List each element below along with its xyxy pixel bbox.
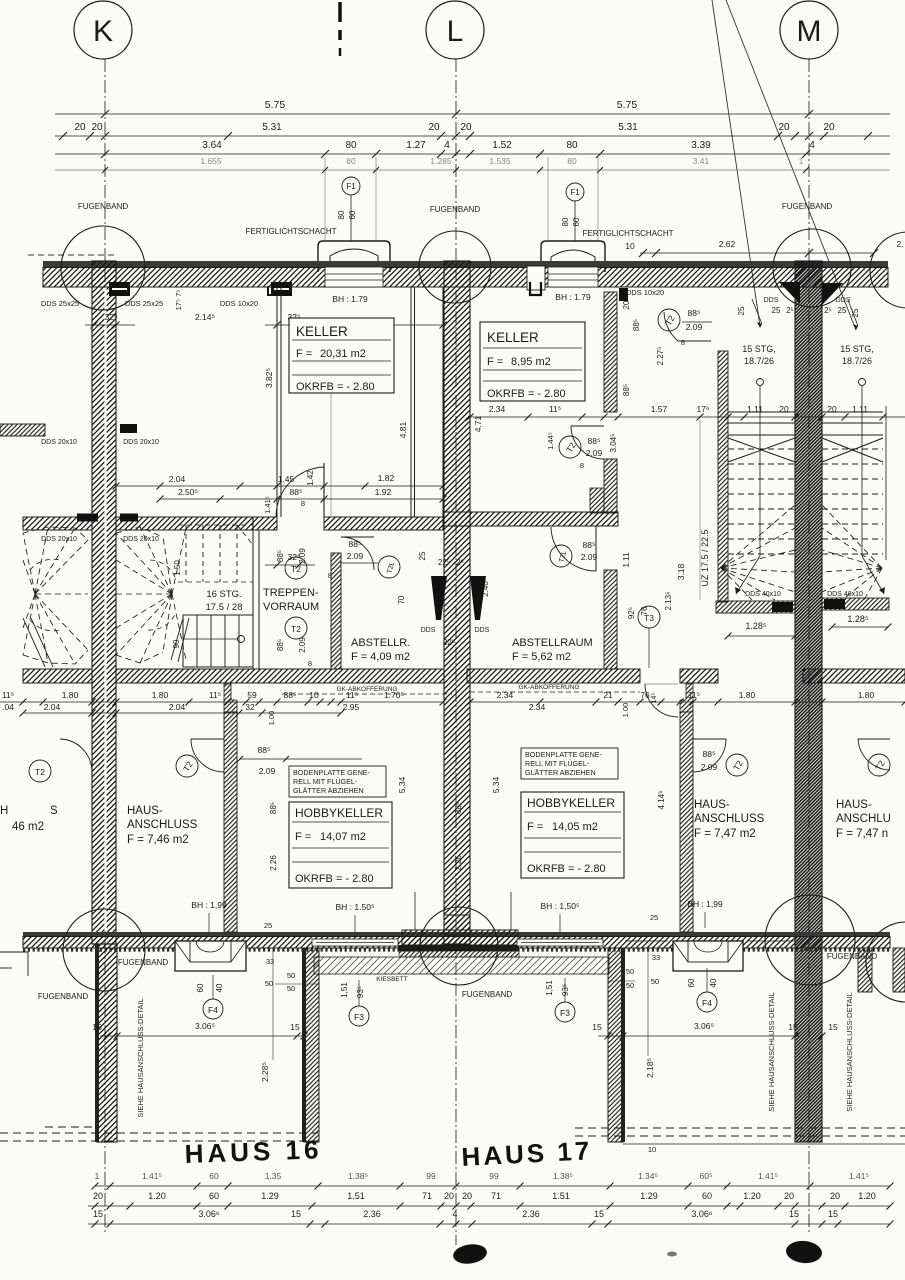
wall keller-right partition lower [604,459,617,513]
svg-text:FERTIGLICHTSCHACHT: FERTIGLICHTSCHACHT [246,227,337,236]
svg-text:1.20: 1.20 [858,1191,876,1201]
svg-text:32: 32 [245,702,255,712]
svg-text:25: 25 [851,308,860,317]
svg-text:15: 15 [789,1209,799,1219]
svg-text:11⁵: 11⁵ [209,690,221,700]
light shaft left [318,241,390,272]
svg-text:14⁵: 14⁵ [651,693,658,704]
svg-text:2.18⁵: 2.18⁵ [645,1058,655,1078]
svg-text:88⁵: 88⁵ [622,384,631,396]
T3 circle [638,606,660,628]
wall below right1 [608,948,623,1142]
svg-text:99: 99 [489,1171,499,1181]
stair solid wedge neighbour [23,618,45,667]
svg-text:20: 20 [830,1191,840,1201]
svg-text:88⁵: 88⁵ [269,802,278,814]
svg-text:25: 25 [650,913,658,922]
svg-text:80: 80 [567,156,577,166]
svg-text:2.27⁵: 2.27⁵ [656,347,665,366]
svg-text:10: 10 [648,1145,656,1154]
svg-text:40: 40 [215,983,224,992]
svg-text:FERTIGLICHTSCHACHT: FERTIGLICHTSCHACHT [583,229,674,238]
sill left of L foot [312,939,398,946]
dim row stairs 1.11 20 [859,416,861,418]
sill lines right house mid [625,940,668,942]
svg-text:60: 60 [196,983,205,992]
dim row 1.92 [160,498,443,500]
svg-text:2⁵: 2⁵ [786,306,794,315]
T2 circle far-right [868,754,890,776]
svg-text:2.36: 2.36 [522,1209,540,1219]
svg-text:15 STG,: 15 STG, [742,344,776,354]
svg-text:18.7/26: 18.7/26 [842,356,872,366]
T2L circle abstellr [378,556,400,578]
svg-text:2.36: 2.36 [363,1209,381,1219]
svg-text:20: 20 [91,122,103,133]
svg-text:15: 15 [291,1209,301,1219]
svg-text:3.06⁶: 3.06⁶ [198,1209,220,1219]
svg-text:2.28⁵: 2.28⁵ [260,1062,270,1082]
svg-text:1: 1 [95,1171,100,1181]
svg-text:25: 25 [838,306,847,315]
svg-text:1.41⁵: 1.41⁵ [849,1171,869,1181]
svg-text:2.14⁵: 2.14⁵ [195,312,215,322]
svg-text:15 STG,: 15 STG, [840,344,874,354]
wall L foot dark strip [398,945,519,951]
light well left [175,941,246,971]
detail circle right edge bottom [866,922,905,1002]
svg-text:DDS: DDS [421,627,436,634]
svg-text:T2: T2 [291,564,301,574]
svg-text:F1: F1 [570,188,580,197]
svg-text:21: 21 [603,690,613,700]
door keller-right arc [571,426,604,459]
svg-text:88⁵: 88⁵ [588,436,601,446]
T2 circle vorraum lower [285,617,307,639]
svg-text:88⁵: 88⁵ [276,639,285,651]
svg-text:K: K [93,15,113,48]
svg-text:ANSCHLUSS: ANSCHLUSS [127,819,198,831]
svg-text:2.62: 2.62 [719,239,736,249]
dim 3.06 row left [100,1035,304,1037]
svg-text:4.81: 4.81 [398,421,408,438]
svg-text:22⁵: 22⁵ [443,638,455,647]
DDS block at corridor [619,288,628,301]
svg-text:T3: T3 [644,613,654,623]
svg-text:2.95: 2.95 [343,702,360,712]
sill right of L foot [517,939,603,946]
svg-text:32⁵: 32⁵ [105,312,118,322]
svg-text:50: 50 [626,981,634,990]
svg-text:F1: F1 [346,182,356,191]
neighbour far-left door arc [60,739,92,772]
room box KELLER right [480,322,585,401]
wall top exterior hatch [43,268,888,288]
grid axis K circle [74,1,132,59]
svg-text:2.09: 2.09 [298,548,307,564]
svg-text:1,51: 1,51 [340,982,349,998]
mid dim row upper [0,701,443,703]
svg-text:ANSCHLU: ANSCHLU [836,813,891,825]
svg-text:93⁵: 93⁵ [356,986,365,998]
svg-text:3.18: 3.18 [676,563,686,580]
extension lines shaft right [547,157,549,240]
detail circle K bottom [63,909,145,991]
svg-text:88⁵: 88⁵ [583,540,596,550]
wall bottom exterior [23,932,890,937]
box BODENPLATTE left [289,766,386,797]
svg-text:2.04: 2.04 [44,702,61,712]
door far-right arc [858,739,890,770]
svg-text:15: 15 [828,1022,838,1032]
svg-text:KELLER: KELLER [487,330,539,345]
svg-text:20: 20 [778,122,790,133]
dim row 1.45 1.82 [116,485,443,487]
mid dim row lower [23,712,341,714]
svg-text:1.80: 1.80 [858,690,875,700]
svg-text:FUGENBAND: FUGENBAND [38,992,88,1001]
svg-text:FUGENBAND: FUGENBAND [462,990,512,999]
winder fan haus16 side [116,533,172,594]
svg-text:T2: T2 [291,624,301,634]
svg-text:.04: .04 [2,702,14,712]
stair break lines right flight [822,438,883,462]
svg-text:GLÄTTER ABZIEHEN: GLÄTTER ABZIEHEN [525,768,596,777]
svg-text:17⁵ 7⁵: 17⁵ 7⁵ [174,290,183,311]
svg-text:F3: F3 [560,1008,570,1018]
svg-text:14,05 m2: 14,05 m2 [552,821,598,833]
door T2L right arc [551,527,596,571]
svg-text:60: 60 [209,1171,219,1181]
svg-text:3.39: 3.39 [691,140,711,151]
svg-text:92⁵: 92⁵ [627,607,636,619]
svg-text:10: 10 [625,241,635,251]
svg-text:F = 7,47 m2: F = 7,47 m2 [694,828,756,840]
extension lines shaft left [324,157,326,240]
T2 circle hausanschluss-right [726,754,748,776]
svg-text:60⁵: 60⁵ [700,1171,713,1181]
svg-text:88⁵: 88⁵ [276,550,285,562]
svg-text:FUGENBAND: FUGENBAND [430,205,480,214]
svg-text:BH : 1.79: BH : 1.79 [555,292,591,302]
svg-text:15: 15 [788,1022,798,1032]
svg-text:50: 50 [626,967,634,976]
niche U at partition left house [268,286,276,295]
F3 right mark [555,1002,575,1022]
svg-text:2.09: 2.09 [701,762,718,772]
F1 mark right [566,183,584,201]
stair left wall right house [718,351,728,602]
box HOBBYKELLER right [521,792,624,878]
svg-text:1.51: 1.51 [552,1191,570,1201]
door hausanschluss-left [191,738,224,740]
T2 circle corridor [658,309,680,331]
svg-text:F =: F = [295,831,311,843]
svg-text:5.75: 5.75 [265,99,286,111]
svg-text:H: H [0,805,8,817]
svg-text:2.: 2. [896,239,903,249]
T2 circle far-left [29,760,51,782]
svg-text:5.34: 5.34 [397,776,407,793]
svg-text:DDS 10x20: DDS 10x20 [220,299,258,308]
svg-text:71: 71 [422,1191,432,1201]
svg-text:TREPPEN-: TREPPEN- [263,587,319,599]
svg-text:20: 20 [462,1191,472,1201]
svg-text:33: 33 [652,953,660,962]
svg-text:BH : 1,50⁵: BH : 1,50⁵ [541,901,580,911]
svg-text:20: 20 [460,122,472,133]
dds trapezoid left of L [431,576,447,620]
svg-text:VORRAUM: VORRAUM [263,601,319,613]
svg-text:50: 50 [265,979,273,988]
svg-text:80: 80 [561,217,570,226]
svg-text:HAUS-: HAUS- [694,799,730,811]
svg-text:BH : 1.50⁵: BH : 1.50⁵ [336,902,375,912]
svg-text:1.52: 1.52 [492,140,512,151]
window gap left shaft [325,267,383,287]
wall L foot stem [444,915,470,935]
svg-text:15: 15 [828,1209,838,1219]
svg-text:1.80: 1.80 [739,690,756,700]
svg-text:88⁵: 88⁵ [284,690,297,700]
svg-text:20: 20 [823,122,835,133]
svg-text:40: 40 [709,978,718,987]
svg-text:8: 8 [681,338,685,347]
svg-text:2⁵: 2⁵ [824,306,832,315]
svg-text:88⁵: 88⁵ [703,749,716,759]
svg-text:DDS 20x10: DDS 20x10 [123,439,159,446]
stair winder fan left flight [721,505,795,568]
svg-text:2.04: 2.04 [169,702,186,712]
svg-text:FUGENBAND: FUGENBAND [782,202,832,211]
winder fan neighbour left [23,533,35,594]
svg-text:RELL MIT FLÜGEL-: RELL MIT FLÜGEL- [293,777,358,786]
svg-text:20: 20 [444,1191,454,1201]
svg-text:ABSTELLR.: ABSTELLR. [351,637,410,649]
svg-text:GK-ABKOFFERUNG: GK-ABKOFFERUNG [518,684,579,691]
svg-text:88⁵: 88⁵ [290,487,303,497]
wall hausanschluss-left partition [224,712,237,932]
stair treads right house right flight [822,411,883,413]
svg-text:20: 20 [74,122,86,133]
svg-text:20: 20 [622,300,631,309]
top dim row 5.31 [55,135,890,137]
box HOBBYKELLER left [289,802,392,888]
svg-text:1.82: 1.82 [378,473,395,483]
stair guide line right flight [859,379,866,386]
beam under stairs left [716,601,795,613]
svg-text:2.09: 2.09 [686,322,703,332]
svg-text:ANSCHLUSS: ANSCHLUSS [694,813,765,825]
stair treads right house left flight [728,411,795,413]
svg-text:F3: F3 [354,1012,364,1022]
svg-text:F =: F = [296,348,312,360]
ink blob left [452,1242,488,1266]
door T2L left arc [341,537,374,570]
right edge stub b [893,948,905,992]
F3 left mark [349,1006,369,1026]
svg-text:HOBBYKELLER: HOBBYKELLER [295,806,383,820]
svg-text:UZ 17.5 / 22.5: UZ 17.5 / 22.5 [700,529,710,586]
svg-text:11⁵: 11⁵ [2,690,14,700]
svg-text:22⁵: 22⁵ [438,558,450,567]
svg-text:F =: F = [527,821,543,833]
svg-text:OKRFB = - 2.80: OKRFB = - 2.80 [296,381,375,393]
svg-text:99: 99 [426,1171,436,1181]
svg-text:2.04: 2.04 [169,474,186,484]
svg-text:8: 8 [301,499,305,508]
svg-text:DDS 20x10: DDS 20x10 [41,536,77,543]
fugenband dotted strip under bottom wall [23,948,890,951]
svg-text:76: 76 [640,690,650,700]
F1 mark left [342,177,360,195]
dashed lines above haus text left [0,1132,318,1134]
svg-text:1.655: 1.655 [200,156,222,166]
detail circle K top [61,226,145,310]
svg-text:8: 8 [328,571,332,580]
svg-text:4: 4 [452,1209,457,1219]
svg-text:15: 15 [594,1209,604,1219]
svg-text:3.82⁵: 3.82⁵ [264,368,274,388]
wall party K [92,261,116,944]
svg-text:T2: T2 [35,767,45,777]
svg-text:1.11: 1.11 [622,552,631,568]
bottom dim row B [88,1205,890,1207]
svg-text:KELLER: KELLER [296,324,348,339]
window niche small left [527,266,545,290]
svg-text:25: 25 [418,551,427,560]
wall abstellraum-right partition [604,570,617,669]
stair upper dashed left house [185,525,187,582]
svg-text:15: 15 [93,1209,103,1219]
shaft line right of keller-left [442,287,444,517]
right edge stub a [858,948,872,992]
svg-text:50: 50 [651,977,659,986]
svg-text:80: 80 [337,210,346,219]
svg-text:80: 80 [566,140,578,151]
stair solid wedge haus16 [171,618,183,660]
wall top exterior dark band [43,261,888,268]
svg-text:BODENPLATTE GENE-: BODENPLATTE GENE- [525,750,603,759]
window gap right shaft [548,267,598,287]
F4 right mark [697,992,717,1012]
svg-text:20: 20 [93,1191,103,1201]
dim 10 / 2.62 right [640,252,874,254]
svg-text:8: 8 [308,659,312,668]
wall mid-left horizontal band [23,517,92,530]
dim row right house y417 [470,416,905,418]
svg-text:L: L [447,15,464,48]
window jamb lines at L foot [414,892,416,930]
svg-text:60: 60 [348,210,357,219]
svg-text:3.64: 3.64 [202,140,222,151]
mid dim row right house [470,701,905,703]
DDS triangle right of M [822,283,843,305]
svg-text:60: 60 [209,1191,219,1201]
F4 left mark [203,999,223,1019]
svg-text:1.41⁵: 1.41⁵ [758,1171,778,1181]
svg-text:20: 20 [784,1191,794,1201]
svg-text:F4: F4 [208,1005,218,1015]
light well right [673,941,743,971]
svg-text:46 m2: 46 m2 [12,821,44,833]
dim extension line x700 [699,420,701,600]
svg-text:1.92: 1.92 [375,487,392,497]
svg-text:SIEHE HAUSANSCHLUSS-DETAIL: SIEHE HAUSANSCHLUSS-DETAIL [136,998,145,1117]
svg-text:1.38⁵: 1.38⁵ [348,1171,368,1181]
wall treppenvorraum right [331,553,341,669]
svg-text:20: 20 [428,122,440,133]
svg-text:1.51: 1.51 [347,1191,365,1201]
wall party L [444,261,470,944]
leader arrows at M dds [752,299,762,324]
svg-text:17.5 / 28: 17.5 / 28 [206,602,243,613]
svg-text:1.11: 1.11 [747,404,763,414]
svg-text:1.34⁵: 1.34⁵ [638,1171,658,1181]
svg-text:SIEHE HAUSANSCHLUSS-DETAIL: SIEHE HAUSANSCHLUSS-DETAIL [767,992,776,1111]
svg-text:M: M [797,15,822,48]
axis L top dash marks [338,2,342,22]
svg-text:1.285: 1.285 [430,156,452,166]
svg-text:2.50⁵: 2.50⁵ [178,487,198,497]
stair winder fan right flight [822,505,882,568]
svg-text:1.29: 1.29 [261,1191,279,1201]
svg-text:RELL MIT FLÜGEL-: RELL MIT FLÜGEL- [525,759,590,768]
svg-text:4.71: 4.71 [473,415,483,432]
svg-text:80: 80 [346,156,356,166]
svg-text:8,95 m2: 8,95 m2 [511,356,551,368]
axis K centerline [104,59,106,1235]
svg-text:2.09: 2.09 [347,551,364,561]
stair guide line left flight [757,379,764,386]
svg-text:1.80: 1.80 [62,690,79,700]
svg-text:1.38⁵: 1.38⁵ [553,1171,573,1181]
svg-text:DDS 40x10: DDS 40x10 [827,591,863,598]
wall keller-left left partition [276,287,278,517]
svg-text:BH : 1.79: BH : 1.79 [332,294,368,304]
svg-text:2.34: 2.34 [489,404,506,414]
dim extension line x331 [330,341,332,516]
ink blob right [785,1239,823,1264]
wall below left2 [304,948,319,1142]
grid axis M circle [780,1,838,59]
svg-text:1.57: 1.57 [651,404,668,414]
svg-text:25: 25 [772,306,781,315]
svg-text:1.27: 1.27 [406,140,426,151]
svg-text:2.09: 2.09 [259,766,276,776]
T2L circle right [550,545,572,567]
svg-text:20: 20 [827,404,837,414]
svg-text:F = 7,47 n: F = 7,47 n [836,828,888,840]
svg-text:88⁵: 88⁵ [258,745,271,755]
svg-text:1.535: 1.535 [489,156,511,166]
svg-text:DDS 40x10: DDS 40x10 [745,591,781,598]
detail circle L bottom [420,907,498,985]
svg-text:1.70⁵: 1.70⁵ [384,690,404,700]
detail circle M top [773,229,851,307]
wall mid-right horizontal band [444,512,618,526]
svg-text:88⁵: 88⁵ [688,308,701,318]
svg-text:2.09: 2.09 [586,448,603,458]
leader diagonal to DDS left [712,0,760,326]
door T3 arc [645,684,678,717]
svg-text:2.09: 2.09 [298,637,307,653]
svg-text:SIEHE HAUSANSCHLUSS-DETAIL: SIEHE HAUSANSCHLUSS-DETAIL [845,992,854,1111]
svg-text:4: 4 [809,140,815,151]
svg-text:DDS: DDS [475,627,490,634]
ink blob small middle [667,1252,677,1257]
svg-text:93⁵: 93⁵ [561,984,570,996]
